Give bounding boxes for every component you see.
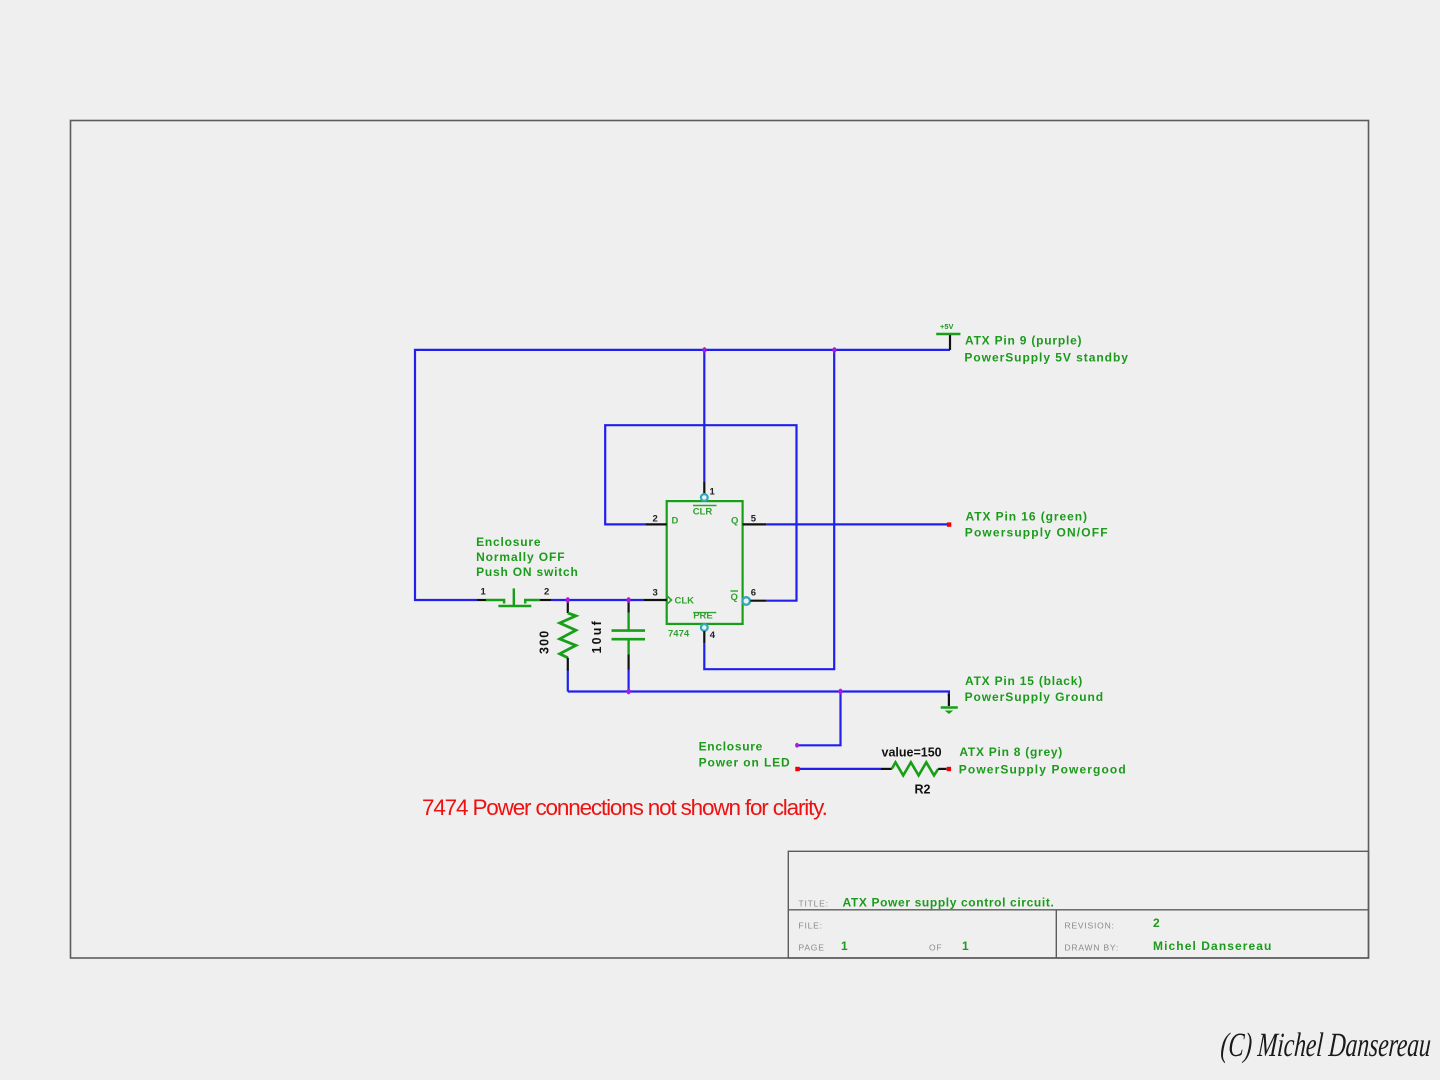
svg-text:OF: OF — [929, 943, 942, 953]
svg-text:ATX Power supply control circu: ATX Power supply control circuit. — [843, 896, 1055, 910]
resistor R1 zigzag — [560, 613, 576, 658]
wire switch pin 2 to CLK (pin 3) — [551, 599, 644, 601]
pin 6 lead — [750, 600, 766, 602]
svg-text:TITLE:: TITLE: — [799, 899, 829, 909]
wire CLR stub from top rail down to pin 1 — [703, 350, 705, 481]
svg-text:7474 Power connections not sho: 7474 Power connections not shown for cla… — [422, 795, 827, 820]
svg-text:CLR: CLR — [693, 506, 713, 517]
svg-text:2: 2 — [544, 587, 549, 598]
op: 7474 flip-flop U1 body — [667, 501, 743, 624]
power symbol +5V — [936, 333, 960, 335]
pin 3 lead (CLK) — [644, 599, 667, 601]
junction dot top rail / PRE loop — [832, 347, 836, 353]
wire +5V net: top rail, left drop and run to switch pin 1 — [415, 350, 950, 600]
svg-text:Enclosure: Enclosure — [476, 535, 541, 549]
junction dot ground net / capacitor — [627, 689, 631, 695]
title block divider horizontal — [788, 909, 1368, 911]
pin 2 lead (D) — [645, 523, 667, 525]
capacitor C1 bottom plate — [612, 638, 646, 641]
svg-text:ATX Pin 8 (grey): ATX Pin 8 (grey) — [959, 745, 1063, 759]
svg-text:ATX Pin 15 (black): ATX Pin 15 (black) — [965, 674, 1083, 688]
svg-text:Powersupply ON/OFF: Powersupply ON/OFF — [965, 525, 1109, 539]
svg-text:PAGE: PAGE — [799, 943, 825, 953]
svg-text:1: 1 — [841, 939, 848, 953]
wire resistor bottom elbow — [567, 670, 569, 692]
wire PRE loop: pin 4 down, right, and up to the top rail — [704, 350, 834, 669]
resistor R1 bottom lead — [567, 658, 569, 671]
svg-text:+5V: +5V — [940, 322, 954, 331]
pin 1 lead (CLR) — [703, 481, 705, 494]
svg-text:FILE:: FILE: — [799, 921, 823, 931]
svg-text:ATX Pin 16 (green): ATX Pin 16 (green) — [966, 510, 1088, 524]
pin 5 lead (Q) — [743, 523, 767, 525]
svg-text:1: 1 — [710, 487, 716, 498]
junction dot top rail / CLR stub — [702, 347, 706, 353]
drawing sheet frame — [71, 121, 1369, 959]
push switch S1: pin 1 lead — [477, 599, 487, 601]
svg-text:(C) Michel Dansereau: (C) Michel Dansereau — [1219, 1027, 1432, 1064]
svg-text:CLK: CLK — [675, 595, 695, 606]
push switch left contact — [486, 600, 504, 604]
svg-text:4: 4 — [710, 630, 716, 641]
ground symbol ATX pin 15 — [948, 694, 950, 706]
push switch pin 2 lead — [540, 599, 551, 601]
svg-text:Push ON switch: Push ON switch — [476, 565, 579, 579]
wire capacitor bottom elbow — [627, 669, 629, 692]
svg-text:Power on LED: Power on LED — [699, 756, 791, 770]
svg-text:Michel Dansereau: Michel Dansereau — [1153, 939, 1272, 953]
svg-text:300: 300 — [538, 630, 552, 654]
svg-text:7474: 7474 — [668, 629, 690, 640]
svg-text:Q: Q — [731, 592, 738, 603]
wire LED tap from ground net — [797, 692, 841, 746]
resistor R2: left lead — [881, 768, 892, 770]
capacitor C1 bottom lead — [627, 640, 629, 654]
resistor R2 right lead — [938, 768, 946, 770]
wire Q (pin 5) to ATX pin 16 — [766, 523, 949, 525]
wire ground net to ATX pin 15 — [568, 692, 949, 697]
svg-text:10uf: 10uf — [590, 619, 604, 654]
capacitor C1 10uf: top lead — [627, 600, 629, 613]
svg-text:DRAWN BY:: DRAWN BY: — [1065, 943, 1120, 953]
svg-text:R2: R2 — [915, 782, 931, 796]
svg-text:5: 5 — [751, 514, 757, 525]
push switch movable bar — [498, 605, 531, 608]
svg-text:6: 6 — [751, 588, 756, 599]
push switch right contact — [525, 600, 540, 604]
svg-text:ATX Pin 9 (purple): ATX Pin 9 (purple) — [965, 334, 1082, 348]
svg-text:value=150: value=150 — [882, 746, 942, 760]
svg-text:REVISION:: REVISION: — [1065, 921, 1115, 931]
junction dot switch row / resistor — [566, 597, 570, 603]
svg-text:Enclosure: Enclosure — [699, 740, 763, 754]
net end marker LED stub — [795, 743, 799, 748]
resistor R2 zigzag — [892, 762, 938, 775]
svg-text:D: D — [672, 515, 679, 526]
node ATX pin 16 terminal square — [947, 522, 951, 526]
CLK input chevron — [667, 596, 672, 605]
title block outer box — [788, 851, 1368, 958]
svg-text:PowerSupply Ground: PowerSupply Ground — [965, 690, 1104, 704]
svg-text:2: 2 — [1153, 916, 1160, 930]
resistor R1 300: top lead — [567, 600, 569, 613]
svg-text:1: 1 — [481, 587, 487, 598]
pin 6 bubble (Qbar) — [742, 597, 750, 605]
capacitor C1 top plate — [612, 629, 646, 632]
pin 4 lead — [703, 631, 705, 643]
svg-text:PowerSupply 5V standby: PowerSupply 5V standby — [964, 350, 1129, 364]
title block divider vertical — [1055, 910, 1057, 958]
pin 1 bubble — [701, 494, 708, 501]
wire LED row to R2 — [798, 768, 882, 770]
push switch actuator stem — [513, 588, 515, 606]
wire feedback loop from Qbar (pin 6) to D (pin 2) — [605, 425, 796, 601]
svg-text:Q: Q — [731, 515, 738, 526]
junction dot ground net / LED tap — [838, 689, 842, 695]
node ATX pin 8 terminal square — [947, 767, 951, 771]
svg-text:1: 1 — [962, 939, 969, 953]
node LED terminal square — [795, 767, 799, 771]
svg-text:3: 3 — [653, 588, 658, 599]
svg-text:PowerSupply Powergood: PowerSupply Powergood — [959, 763, 1127, 777]
svg-text:2: 2 — [653, 514, 658, 525]
junction dot switch row / capacitor — [627, 597, 631, 603]
svg-text:Normally OFF: Normally OFF — [476, 550, 565, 564]
pin 4 bubble (PRE) — [701, 624, 708, 631]
